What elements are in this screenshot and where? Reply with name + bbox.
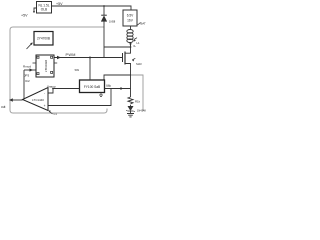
svg-text:-: -	[44, 92, 45, 96]
svg-text:Rmod: Rmod	[23, 65, 31, 69]
svg-text:+5V: +5V	[21, 14, 28, 18]
svg-text:Vfb: Vfb	[106, 84, 111, 88]
svg-text:R1k: R1k	[135, 100, 141, 104]
svg-text:BAT: BAT	[141, 22, 147, 26]
svg-text:+: +	[44, 104, 46, 108]
svg-text:JP3: JP3	[24, 74, 30, 78]
svg-text:IC2: IC2	[25, 79, 30, 83]
svg-text:C1: C1	[54, 112, 58, 116]
svg-text:PWM: PWM	[66, 53, 76, 57]
svg-text:+5V: +5V	[56, 2, 63, 6]
svg-text:1N58: 1N58	[109, 20, 116, 24]
svg-text:out: out	[1, 105, 6, 109]
svg-text:LTC6992: LTC6992	[44, 59, 48, 72]
svg-text:LTC1440: LTC1440	[32, 98, 44, 102]
svg-text:SW: SW	[75, 68, 80, 72]
svg-text:6.5V: 6.5V	[127, 14, 134, 18]
svg-text:L1: L1	[137, 41, 141, 45]
svg-text:1N4148: 1N4148	[137, 110, 146, 113]
svg-text:OLB: OLB	[41, 8, 47, 12]
svg-text:Si23: Si23	[136, 62, 142, 66]
svg-text:2Y4700B: 2Y4700B	[37, 37, 50, 41]
svg-text:16V: 16V	[127, 19, 134, 23]
svg-text:FY100 SaB: FY100 SaB	[84, 85, 100, 89]
svg-text:IL: IL	[134, 44, 137, 48]
